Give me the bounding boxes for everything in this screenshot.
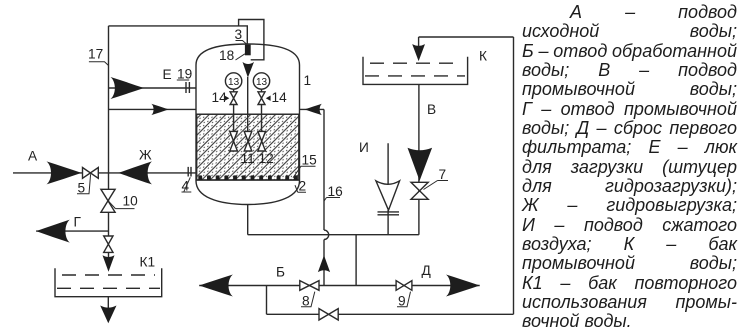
wire: center distributor pipe bbox=[247, 77, 249, 131]
vessel 1 filter body bbox=[196, 44, 300, 205]
svg-text:18: 18 bbox=[219, 48, 235, 63]
label 7 leader bbox=[424, 181, 449, 190]
valve 14 right bbox=[258, 92, 265, 105]
label 4 leader bbox=[182, 177, 192, 192]
label 2 leader bbox=[295, 185, 306, 192]
distributor nozzle 11 (left) bbox=[230, 131, 238, 151]
bypass valve on K1 recycle line bbox=[319, 309, 338, 320]
svg-text:А: А bbox=[28, 149, 38, 164]
wire: left main vertical header bbox=[108, 26, 110, 236]
svg-text:Д: Д bbox=[422, 263, 432, 278]
svg-text:К: К bbox=[479, 49, 487, 64]
svg-text:16: 16 bbox=[328, 184, 344, 199]
wire: bottom drain from vessel bbox=[247, 205, 249, 235]
svg-text:В: В bbox=[427, 102, 436, 117]
arrow into tank K1 bbox=[103, 255, 115, 271]
svg-text:11 12: 11 12 bbox=[241, 151, 274, 166]
pointer to valve 14 right bbox=[266, 96, 271, 101]
instrument circle 13 right bbox=[253, 73, 269, 89]
valve 14 left bbox=[230, 92, 237, 105]
wire: V backwash line bbox=[418, 84, 420, 234]
wire: left 13/14 drop pipe bbox=[233, 89, 235, 131]
wire: bypass bottom line bbox=[267, 313, 514, 315]
flow dart G (left) bbox=[36, 220, 70, 243]
label 3 leader bbox=[236, 41, 248, 45]
wire: pipe 16 vertical with crossing hop bbox=[323, 109, 325, 230]
wire: drop into tank K1 bbox=[108, 252, 110, 258]
svg-text:E: E bbox=[163, 67, 172, 82]
wire: hatch E line bbox=[109, 87, 197, 89]
wire: left media-top line bbox=[109, 108, 197, 110]
label 10 leader bbox=[108, 201, 134, 209]
svg-text:13: 13 bbox=[256, 77, 268, 88]
flange 4 on Zh line bbox=[188, 167, 191, 177]
wire: top loop pipe over vessel bbox=[239, 20, 264, 60]
svg-text:Б: Б bbox=[276, 265, 285, 280]
svg-text:19: 19 bbox=[177, 67, 192, 82]
distributor nozzle (center) bbox=[244, 131, 252, 151]
flow arrow 18 into vessel bbox=[243, 62, 255, 78]
flow dart D (right) bbox=[446, 275, 480, 297]
svg-text:9: 9 bbox=[398, 294, 406, 309]
nozzle caps row 15 bbox=[198, 175, 298, 180]
wire: Zh line to vessel bbox=[109, 172, 197, 174]
label 17 bbox=[77, 41, 448, 307]
check valve I (funnel) bbox=[376, 181, 400, 210]
svg-text:Г: Г bbox=[74, 215, 82, 230]
wire: tank K inlet bbox=[419, 37, 514, 46]
label 16 leader bbox=[324, 198, 340, 202]
wire: A inlet line bbox=[13, 172, 109, 174]
label 15 leader bbox=[293, 166, 316, 178]
wire: tank K1 outlet bbox=[107, 297, 109, 309]
small dart on left media line (right) bbox=[151, 104, 168, 115]
wire: drop x356 to B line bbox=[355, 235, 357, 286]
nozzle stub 3 on dome bbox=[245, 45, 251, 56]
svg-text:2: 2 bbox=[299, 179, 307, 194]
svg-text:4: 4 bbox=[182, 179, 190, 194]
distributor nozzle 12 (right) bbox=[258, 131, 266, 151]
arrow out of tank K1 bbox=[100, 306, 116, 324]
wire: right media-top line to pipe 16 bbox=[300, 108, 325, 110]
big arrow on V line bbox=[408, 148, 433, 181]
svg-text:13: 13 bbox=[228, 77, 240, 88]
small drain valve above K1 bbox=[104, 236, 113, 252]
label 18 leader bbox=[236, 54, 245, 60]
svg-text:Ж: Ж bbox=[139, 148, 152, 163]
wire: right 13/14 drop pipe bbox=[261, 89, 263, 131]
small dart on right media line (left) bbox=[305, 104, 322, 115]
svg-text:5: 5 bbox=[78, 181, 86, 196]
wire: bottom manifold bbox=[248, 234, 419, 236]
svg-text:К1: К1 bbox=[140, 255, 156, 270]
flow dart E (right) bbox=[111, 77, 145, 99]
svg-text:15: 15 bbox=[302, 153, 318, 168]
flow dart Zh (left) bbox=[118, 161, 152, 184]
wire: I air line bbox=[387, 143, 389, 234]
instrument circle 13 left bbox=[225, 73, 241, 89]
flange 19 on hatch E bbox=[186, 82, 189, 93]
up arrow on pipe 16 bbox=[318, 255, 330, 272]
wire: right riser to K bbox=[513, 37, 515, 314]
valve 9 bbox=[396, 281, 412, 291]
wire: G outlet line bbox=[36, 230, 108, 232]
wire: bypass drop bbox=[266, 286, 268, 315]
svg-text:10: 10 bbox=[123, 194, 139, 209]
valve 5 on A line bbox=[83, 168, 99, 179]
svg-text:И: И bbox=[359, 140, 369, 155]
label 19 leader bbox=[177, 79, 189, 81]
valve 7 on V line bbox=[411, 182, 428, 199]
tank K bbox=[363, 57, 468, 85]
label 8 leader bbox=[301, 292, 315, 307]
valve 10 bbox=[101, 189, 115, 212]
svg-text:1: 1 bbox=[304, 73, 312, 88]
arrow into tank K bbox=[412, 44, 425, 61]
filter media bed (hatched) bbox=[197, 114, 299, 180]
svg-text:3: 3 bbox=[235, 27, 243, 42]
svg-text:14: 14 bbox=[212, 90, 228, 105]
label 9 leader bbox=[397, 292, 411, 307]
svg-text:7: 7 bbox=[439, 167, 447, 182]
svg-text:17: 17 bbox=[88, 47, 103, 62]
flow dart A (right) bbox=[47, 161, 82, 184]
wire: B/D bottom line bbox=[199, 285, 480, 287]
pointer to valve 14 left bbox=[225, 96, 230, 101]
svg-text:8: 8 bbox=[302, 294, 310, 309]
wire: top bypass line 17 horizontal with drop to nozzle 3 bbox=[109, 26, 248, 45]
svg-text:14: 14 bbox=[272, 90, 288, 105]
valve 8 bbox=[300, 281, 319, 291]
flow dart B (left) bbox=[199, 275, 233, 297]
tank K1 bbox=[55, 268, 162, 296]
label 5 leader bbox=[77, 174, 91, 194]
